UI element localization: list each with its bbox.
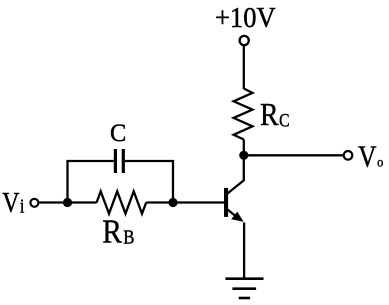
svg-text:+10V: +10V (215, 2, 276, 33)
svg-text:i: i (20, 195, 25, 217)
svg-text:B: B (123, 226, 134, 249)
wire emitter lead (228, 210, 242, 221)
svg-text:C: C (279, 110, 289, 131)
wire supply to RC (243, 46, 245, 89)
terminal Vi (30, 199, 38, 207)
resistor RB (97, 191, 147, 213)
svg-text:V: V (358, 140, 377, 174)
ground bar 2 (232, 287, 256, 290)
ground bar 3 (239, 297, 250, 300)
terminal Vo (344, 151, 353, 160)
resistor RC (234, 89, 253, 140)
node A (63, 198, 72, 207)
svg-text:R: R (260, 98, 279, 132)
node collector junction (239, 151, 248, 160)
terminal +10V (240, 36, 249, 45)
wire node B to base (173, 201, 224, 203)
wire collector lead (228, 155, 244, 193)
capacitor C plate left (114, 149, 117, 173)
emitter arrowhead (231, 212, 244, 222)
wire RB to node B (146, 201, 173, 203)
wire RC to collector node (243, 140, 245, 156)
svg-text:o: o (377, 154, 384, 170)
svg-text:R: R (102, 213, 122, 250)
wire Vi to node A (39, 201, 67, 203)
node B (168, 198, 177, 207)
wire node A to RB (68, 201, 97, 203)
wire emitter to ground (243, 223, 245, 280)
transistor Q1 base bar (224, 188, 228, 217)
svg-text:V: V (2, 187, 19, 219)
svg-text:C: C (110, 120, 126, 147)
wire collector node to Vo (244, 154, 343, 156)
wire cap branch left (68, 161, 114, 203)
ground bar 1 (225, 277, 263, 280)
wire cap branch right (125, 161, 173, 203)
capacitor C plate right (122, 149, 125, 173)
